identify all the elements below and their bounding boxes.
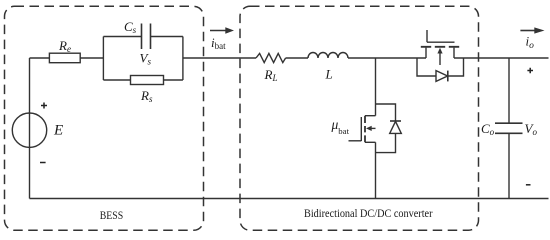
svg-text:RL: RL <box>264 67 278 83</box>
diode D1 loop left <box>417 58 436 76</box>
diode D2 bar <box>390 120 401 122</box>
wire: E top to Re <box>30 57 50 59</box>
current arrow i_o <box>520 30 536 32</box>
capacitor Co plate 1 <box>495 122 523 124</box>
MOSFET Q1 channel dashes <box>421 46 459 48</box>
svg-text:BESS: BESS <box>100 210 124 222</box>
MOSFET Q2 drain horizontal <box>365 115 376 117</box>
arrowhead i_bat <box>225 27 234 33</box>
diode D2 branch top <box>376 104 396 121</box>
diode D1 loop right <box>448 58 464 76</box>
MOSFET Q1 gate lead <box>426 30 428 42</box>
RC bottom wire from Rs <box>164 79 183 81</box>
svg-text:ibat: ibat <box>211 35 226 51</box>
plus sign output <box>527 68 533 74</box>
MOSFET Q1 left lead <box>425 48 427 58</box>
inductor L <box>308 53 348 58</box>
minus sign of E <box>40 162 46 164</box>
resistor Rs <box>131 76 164 85</box>
wire: RL to L <box>286 57 308 59</box>
svg-text:μbat: μbat <box>331 117 350 136</box>
BESS dashed box <box>5 6 204 230</box>
MOSFET Q2 gate lead <box>349 140 362 142</box>
MOSFET Q2 source vertical <box>375 142 377 198</box>
diode D2 triangle <box>390 121 402 133</box>
capacitor Cs plate 2 <box>150 24 152 50</box>
arrowhead Q2 body (left) <box>366 126 372 131</box>
svg-text:io: io <box>526 34 535 51</box>
MOSFET Q1 right lead <box>453 48 455 58</box>
MOSFET Q1 body arrow line <box>439 53 441 66</box>
capacitor Co plate 2 <box>495 132 523 134</box>
minus sign output <box>526 184 531 186</box>
capacitor Cs plate 1 <box>141 24 143 50</box>
wire: L to MOSFET Q1 <box>348 57 426 59</box>
RC top wire from capacitor <box>151 36 183 38</box>
capacitor Co branch top <box>508 58 510 123</box>
arrowhead i_o <box>534 27 544 33</box>
wire: RC group to RL <box>183 57 256 59</box>
MOSFET Q2 channel dashes <box>364 116 366 143</box>
svg-text:Co: Co <box>481 121 495 137</box>
MOSFET Q1 gate bar <box>427 41 455 43</box>
plus sign of E <box>41 103 47 109</box>
lower branch vertical (drain) <box>375 58 377 116</box>
svg-text:Vo: Vo <box>525 121 538 137</box>
svg-text:Re: Re <box>58 38 71 54</box>
diode D2 branch bottom <box>376 133 396 152</box>
diode D1 triangle <box>436 71 448 82</box>
svg-text:Bidirectional DC/DC converter: Bidirectional DC/DC converter <box>304 206 433 220</box>
MOSFET Q2 source horizontal <box>365 141 376 143</box>
current arrow i_bat <box>210 30 227 32</box>
svg-text:L: L <box>325 67 333 82</box>
voltage source E circle <box>12 113 46 147</box>
svg-text:Cs: Cs <box>124 19 137 35</box>
capacitor Co branch bottom <box>508 133 510 198</box>
MOSFET Q2 gate bar <box>360 117 362 141</box>
resistor RL zigzag <box>256 53 286 62</box>
wire: E vertical <box>29 58 31 199</box>
wire: Q1 to output <box>454 57 549 59</box>
svg-text:Vs: Vs <box>140 50 152 66</box>
arrowhead Q1 body (up) <box>437 48 442 54</box>
diode D1 bar <box>447 71 449 82</box>
bottom wire <box>30 198 549 200</box>
svg-text:Rs: Rs <box>140 88 153 104</box>
wire: Re to RC group <box>80 57 103 59</box>
Bidirectional converter dashed box <box>240 6 479 230</box>
svg-text:E: E <box>53 123 63 139</box>
MOSFET Q2 body arrow line <box>370 127 376 129</box>
RC group left vertical <box>102 37 104 81</box>
RC top wire to capacitor <box>103 36 141 38</box>
RC bottom wire to Rs <box>103 79 130 81</box>
resistor Re <box>49 53 80 63</box>
RC group right vertical <box>182 37 184 81</box>
